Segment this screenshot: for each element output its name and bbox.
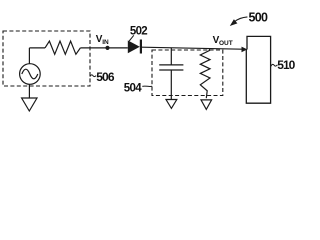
svg-text:510: 510 xyxy=(277,58,295,72)
svg-text:502: 502 xyxy=(130,25,147,37)
svg-text:506: 506 xyxy=(96,70,115,84)
svg-text:500: 500 xyxy=(249,11,269,25)
svg-text:IN: IN xyxy=(102,39,109,46)
svg-text:504: 504 xyxy=(124,83,142,95)
svg-text:OUT: OUT xyxy=(219,40,233,47)
